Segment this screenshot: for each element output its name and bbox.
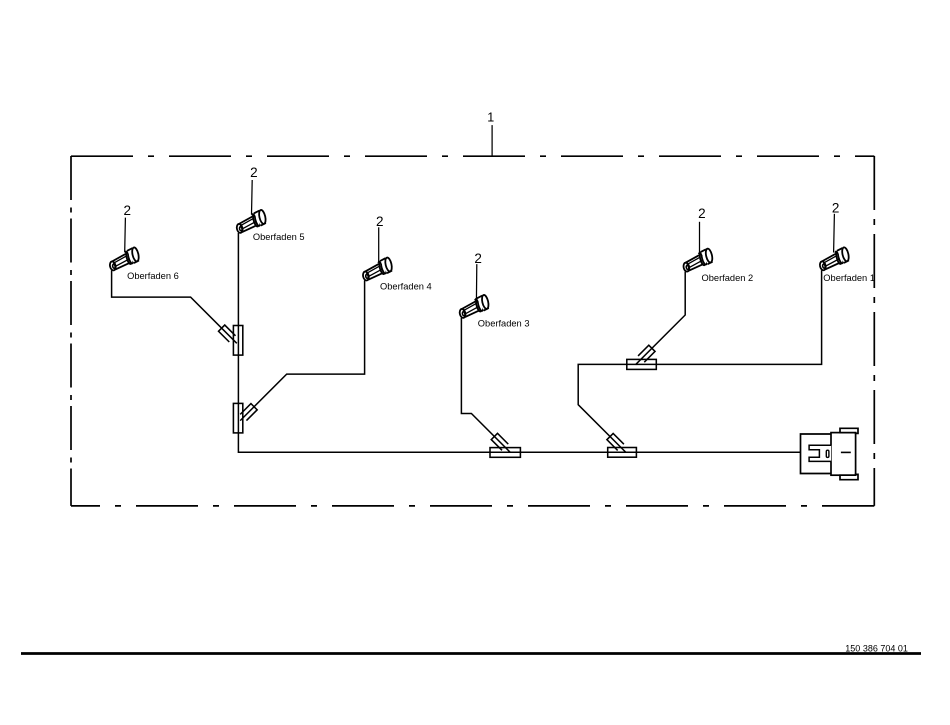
leader line 2 of Oberfaden 2: [699, 222, 701, 253]
pin inside connector: [826, 450, 829, 457]
wire W4 from Oberfaden 4: [240, 281, 364, 421]
frame border dash-dot: [71, 156, 874, 506]
connector housing X1: [801, 428, 859, 479]
right box of connector: [831, 433, 856, 476]
svg-text:Oberfaden 4: Oberfaden 4: [380, 281, 432, 291]
svg-text:2: 2: [832, 200, 840, 215]
svg-text:Oberfaden 6: Oberfaden 6: [127, 271, 179, 281]
leader line for label 1: [491, 125, 493, 156]
junction Y5 (horizontal, branch up-right): [627, 345, 657, 369]
junction Y4 (horizontal, branch up-left): [607, 433, 636, 457]
bottom latch tab: [840, 474, 858, 479]
wire W1 from Oberfaden 1 + branch line: [578, 270, 821, 452]
contact dash inside connector: [841, 451, 851, 453]
sensor plug Oberfaden 4: [359, 256, 396, 285]
leader line 2 of Oberfaden 6: [124, 218, 127, 252]
bottom rule: [21, 652, 921, 655]
leader line 2 of Oberfaden 5: [251, 180, 254, 215]
svg-text:Oberfaden 1: Oberfaden 1: [823, 273, 875, 283]
svg-text:Oberfaden 2: Oberfaden 2: [702, 273, 754, 283]
fork terminal inside connector: [809, 445, 831, 461]
leader line 2 of Oberfaden 1: [833, 214, 836, 253]
svg-text:2: 2: [376, 214, 384, 229]
svg-text:150 386 704 01: 150 386 704 01: [845, 644, 908, 654]
svg-text:Oberfaden 5: Oberfaden 5: [253, 232, 305, 242]
svg-text:1: 1: [487, 111, 494, 125]
svg-text:2: 2: [250, 165, 258, 180]
junction Y1 (vertical, branch up-left): [219, 325, 243, 355]
svg-text:2: 2: [123, 203, 131, 218]
sensor plug Oberfaden 1: [816, 245, 853, 274]
svg-text:2: 2: [698, 206, 706, 221]
svg-text:2: 2: [474, 251, 482, 266]
sensor plug Oberfaden 2: [680, 247, 717, 276]
top latch tab: [840, 428, 858, 433]
leader line 2 of Oberfaden 3: [475, 264, 477, 303]
sensor plug Oberfaden 5: [233, 208, 270, 237]
wire W5 vertical from Oberfaden 5 down + main bus to plug: [238, 233, 801, 452]
junction Y3 (horizontal, branch up-left): [490, 433, 520, 457]
wire W6 from Oberfaden 6: [112, 270, 237, 343]
wire W2 from Oberfaden 2: [636, 272, 686, 365]
junction Y2 (vertical, branch up-right): [233, 403, 257, 433]
sensor plug Oberfaden 3: [456, 293, 493, 322]
svg-text:Oberfaden 3: Oberfaden 3: [478, 319, 530, 329]
left box of connector: [801, 434, 832, 474]
sensor plug Oberfaden 6: [106, 246, 143, 275]
leader line 2 of Oberfaden 4: [378, 227, 380, 262]
wire W3 from Oberfaden 3: [461, 318, 510, 452]
